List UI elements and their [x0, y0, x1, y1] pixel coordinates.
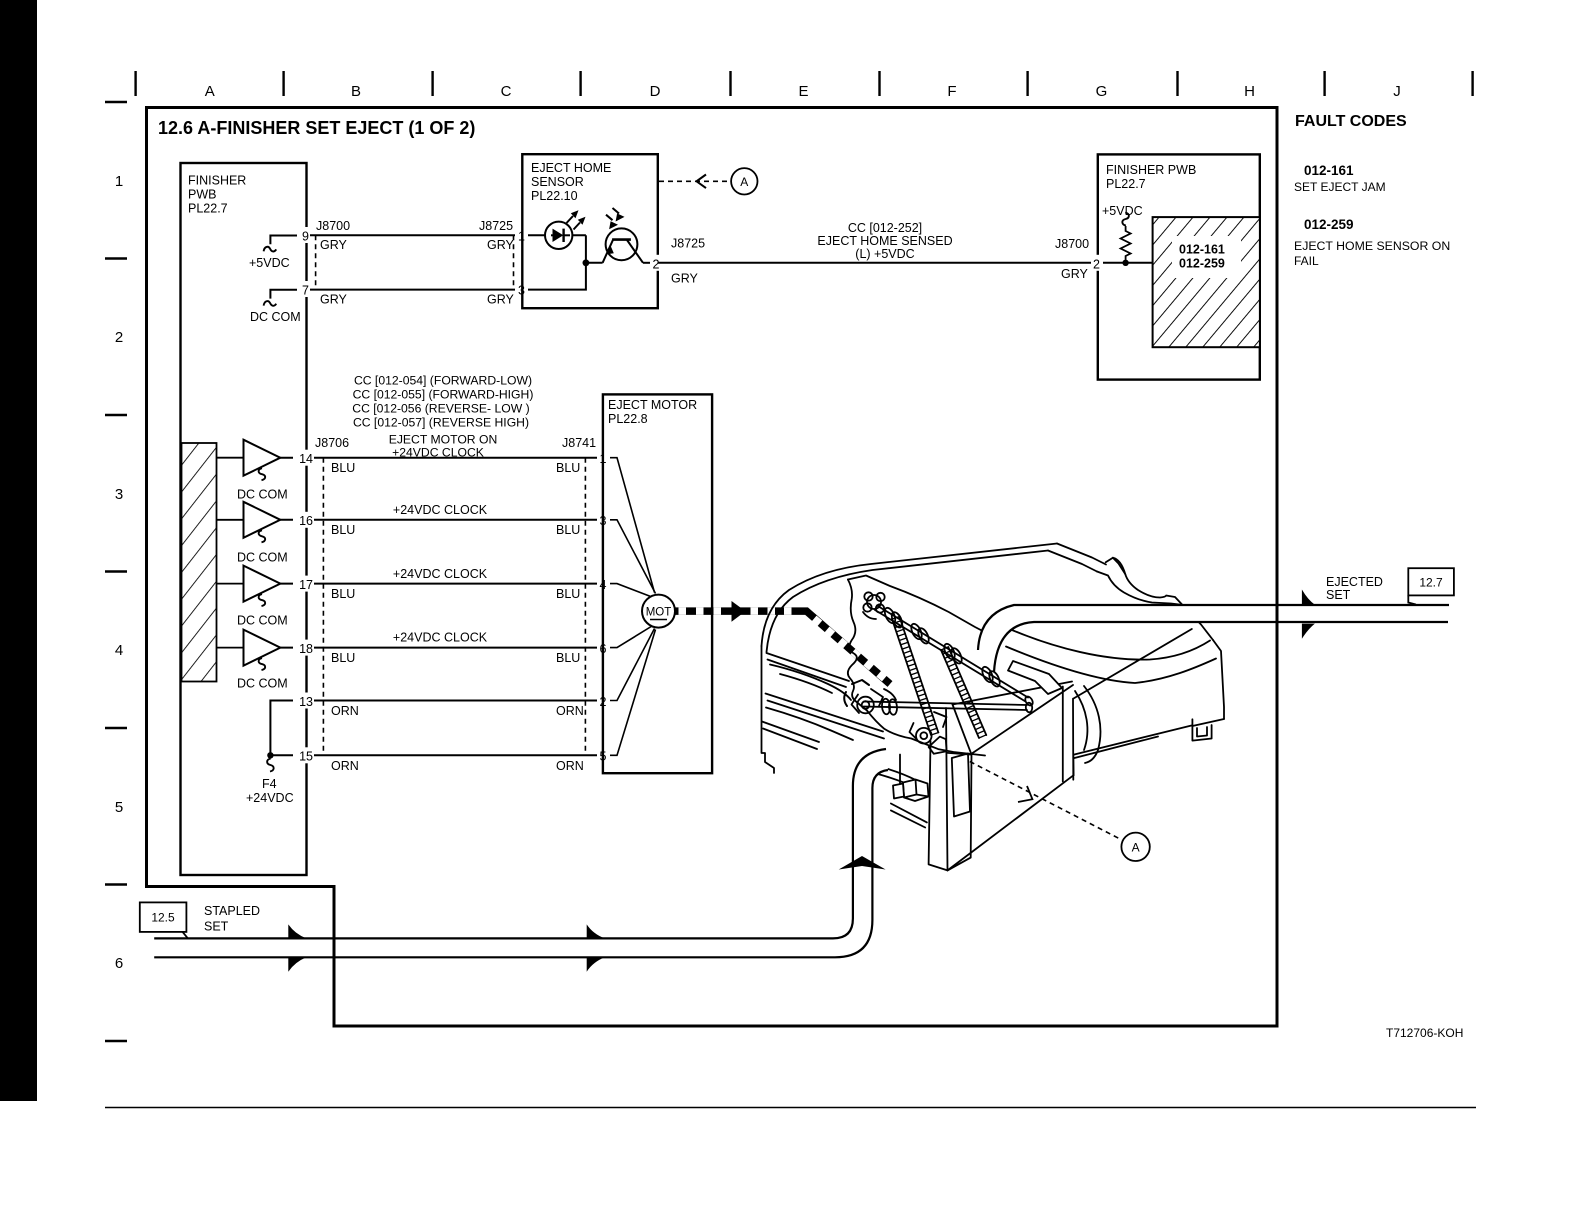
lower left yoke arms	[852, 689, 884, 713]
svg-text:J: J	[1393, 83, 1401, 100]
stapled set arrow pair 2	[587, 924, 605, 938]
svg-text:G: G	[1096, 83, 1108, 100]
svg-text:GRY: GRY	[1061, 267, 1089, 281]
LED D1	[545, 222, 572, 249]
body top-right edge	[1182, 605, 1213, 640]
ridge right of peak	[1057, 544, 1106, 565]
wire pin3 to junction	[528, 263, 586, 290]
wire BLU J8706-16 to J8741-3	[280, 519, 603, 521]
svg-text:PWB: PWB	[188, 188, 216, 202]
svg-text:DC COM: DC COM	[237, 488, 288, 502]
svg-text:DC COM: DC COM	[250, 310, 301, 324]
eject unit plate left wavy edge	[848, 580, 867, 711]
svg-text:SET: SET	[1326, 588, 1351, 602]
CC motor fault codes block	[352, 374, 533, 460]
gear rack 1 edges	[892, 616, 938, 735]
dashed leader to balloon A	[659, 180, 727, 182]
svg-text:14: 14	[299, 452, 313, 466]
pin 13	[293, 693, 314, 709]
svg-text:PL22.7: PL22.7	[188, 202, 228, 216]
svg-text:J8706: J8706	[315, 436, 349, 450]
12.7 reference tab	[1408, 568, 1454, 595]
svg-text:A: A	[205, 83, 215, 100]
svg-text:+24VDC CLOCK: +24VDC CLOCK	[393, 503, 488, 517]
svg-text:12.6 A-FINISHER SET EJECT (1 O: 12.6 A-FINISHER SET EJECT (1 OF 2)	[158, 118, 475, 138]
spool 3	[942, 642, 957, 661]
pillar side face and bottom	[948, 705, 972, 871]
ejected set path lower line	[994, 622, 1448, 672]
pin 1	[515, 227, 528, 243]
svg-text:+24VDC: +24VDC	[246, 791, 294, 805]
wire BLU J8706-18 to J8741-6	[280, 647, 603, 649]
svg-text:GRY: GRY	[487, 238, 515, 252]
rear saddle lobe outer	[1106, 558, 1183, 605]
svg-text:BLU: BLU	[331, 461, 355, 475]
fender curve upper	[1012, 630, 1210, 660]
svg-text:EJECT MOTOR: EJECT MOTOR	[608, 398, 697, 412]
drawing border frame with notch	[147, 108, 1278, 1027]
svg-text:GRY: GRY	[320, 238, 348, 252]
wire GRY J8700-7 to J8725-3	[306, 289, 522, 291]
svg-text:FAULT CODES: FAULT CODES	[1295, 113, 1407, 130]
page margin black bar	[0, 0, 37, 1101]
svg-text:CC [012-057] (REVERSE HIGH): CC [012-057] (REVERSE HIGH)	[353, 416, 529, 430]
svg-text:PL22.8: PL22.8	[608, 412, 648, 426]
ruler tick marks	[136, 71, 1473, 96]
pin 16	[293, 512, 314, 528]
svg-text:4: 4	[115, 642, 123, 659]
DC COM stub J8700-7	[270, 290, 298, 299]
chute guide curves	[873, 765, 927, 785]
eject unit plate bottom edge	[867, 711, 985, 756]
belt arrow	[732, 601, 746, 622]
balloon A	[731, 168, 757, 194]
pin 3 motor	[597, 512, 610, 528]
driver amp 2	[217, 519, 244, 521]
svg-text:PL22.7: PL22.7	[1106, 177, 1146, 191]
svg-text:EJECT MOTOR ON: EJECT MOTOR ON	[389, 433, 498, 447]
spool pair 1	[883, 606, 898, 625]
svg-text:+5VDC: +5VDC	[1102, 204, 1143, 218]
svg-text:J8741: J8741	[562, 436, 596, 450]
svg-text:EJECT HOME SENSED: EJECT HOME SENSED	[817, 234, 952, 248]
svg-text:13: 13	[299, 695, 313, 709]
wire GRY J8700-9 to J8725-1	[306, 234, 522, 236]
svg-text:BLU: BLU	[331, 651, 355, 665]
body bottom-right foot	[1192, 719, 1224, 741]
pin 3	[515, 281, 528, 297]
svg-text:17: 17	[299, 578, 313, 592]
pin 9	[297, 227, 310, 243]
svg-text:ORN: ORN	[556, 759, 584, 773]
svg-text:+5VDC: +5VDC	[249, 256, 290, 270]
svg-text:EJECT HOME: EJECT HOME	[531, 161, 611, 175]
svg-text:BLU: BLU	[331, 587, 355, 601]
svg-text:BLU: BLU	[556, 587, 580, 601]
driver amp 3	[217, 583, 244, 585]
driver amp 1	[217, 457, 244, 459]
wire into pin 2	[1092, 262, 1153, 264]
gear rack 2 teeth	[941, 647, 986, 738]
pin 1 motor	[597, 450, 610, 466]
wire BLU J8706-14 to J8741-1	[280, 457, 603, 459]
svg-text:GRY: GRY	[671, 272, 699, 286]
svg-text:16: 16	[299, 514, 313, 528]
svg-text:H: H	[1244, 83, 1255, 100]
stapled set pipe fill	[154, 749, 888, 957]
eject home sensor box	[522, 154, 658, 308]
svg-text:DC COM: DC COM	[237, 614, 288, 628]
svg-text:SET EJECT JAM: SET EJECT JAM	[1294, 180, 1386, 194]
block left face right verticals	[1063, 687, 1074, 782]
+5VDC stub J8700-9	[270, 236, 298, 245]
svg-text:+24VDC CLOCK: +24VDC CLOCK	[393, 567, 488, 581]
frame notch restored over stapled path	[333, 936, 336, 959]
sensor slot	[952, 754, 970, 817]
pull-up resistor	[1121, 226, 1131, 263]
svg-text:D: D	[650, 83, 661, 100]
svg-text:A: A	[1132, 841, 1140, 855]
svg-text:15: 15	[299, 750, 313, 764]
wedge upper diagonal	[953, 682, 1073, 705]
pin 14	[293, 450, 314, 466]
LED emission arrows	[567, 216, 581, 230]
bottom-right yoke	[910, 712, 947, 739]
tray sheet curves	[770, 665, 851, 701]
svg-text:+24VDC CLOCK: +24VDC CLOCK	[393, 631, 488, 645]
svg-text:CC [012-054] (FORWARD-LOW): CC [012-054] (FORWARD-LOW)	[354, 374, 532, 388]
connector dashed line J8725	[513, 235, 515, 289]
svg-text:T712706-KOH: T712706-KOH	[1386, 1026, 1463, 1040]
svg-text:J8700: J8700	[316, 219, 350, 233]
block left face diagonals	[948, 685, 1074, 870]
pin 7	[297, 281, 310, 297]
block left face fill	[948, 685, 1074, 870]
wire colour labels	[331, 461, 584, 773]
dashed leader to balloon A lower	[970, 762, 1122, 840]
pin 15	[293, 747, 314, 763]
svg-text:1: 1	[115, 173, 123, 190]
body bottom rim	[1073, 726, 1191, 776]
block facet diagonal	[1073, 629, 1192, 699]
svg-text:BLU: BLU	[556, 461, 580, 475]
svg-text:SENSOR: SENSOR	[531, 175, 584, 189]
extra clamp hardware	[844, 680, 869, 706]
svg-text:18: 18	[299, 642, 313, 656]
ruler column letters	[205, 83, 1401, 100]
wire ORN J8706-13 to J8741-2	[306, 700, 603, 702]
support pillar front face	[929, 708, 948, 870]
svg-text:F4: F4	[262, 777, 277, 791]
ejected set pipe fill	[978, 605, 1449, 672]
svg-text:ORN: ORN	[331, 759, 359, 773]
svg-text:A: A	[740, 175, 748, 189]
svg-text:012-161: 012-161	[1304, 163, 1354, 178]
svg-text:J8700: J8700	[1055, 237, 1089, 251]
eject unit plate top edge	[848, 576, 1000, 641]
top cover outer rim	[762, 544, 1058, 647]
wire pin1 to LED	[528, 234, 586, 236]
mid pulley pair	[881, 698, 890, 714]
row numbers	[115, 173, 123, 972]
svg-text:3: 3	[115, 486, 123, 503]
flower knob	[867, 595, 881, 609]
leader arrowhead	[1018, 786, 1032, 802]
svg-text:C: C	[501, 83, 512, 100]
svg-text:BLU: BLU	[556, 651, 580, 665]
svg-text:6: 6	[115, 955, 123, 972]
svg-text:B: B	[351, 83, 361, 100]
frame edge restored over ejected path	[1276, 603, 1279, 624]
svg-text:012-259: 012-259	[1179, 257, 1225, 271]
shaft end cap	[1024, 695, 1035, 707]
12.5 reference tab	[140, 902, 187, 932]
ground plane hatched bar	[182, 443, 217, 682]
ejected set arrow upper	[1302, 590, 1315, 605]
svg-text:9: 9	[302, 230, 309, 244]
stapled set path lower line	[154, 770, 888, 957]
wire ORN J8706-15 to J8741-5	[306, 754, 603, 756]
fault hatched region	[1153, 217, 1260, 347]
svg-text:CC [012-252]: CC [012-252]	[848, 221, 922, 235]
svg-text:STAPLED: STAPLED	[204, 904, 260, 918]
svg-text:2: 2	[653, 257, 660, 271]
svg-text:CC [012-055] (FORWARD-HIGH): CC [012-055] (FORWARD-HIGH)	[353, 388, 534, 402]
wire LED to junction	[585, 235, 587, 262]
svg-text:DC COM: DC COM	[237, 551, 288, 565]
pin 18	[293, 640, 314, 656]
lower shaft	[864, 702, 1028, 711]
svg-text:FAIL: FAIL	[1294, 254, 1319, 268]
rear saddle lobe inner	[1097, 558, 1182, 605]
upper shaft	[875, 606, 1028, 702]
lower shaft left bearing	[857, 697, 874, 714]
tray lines left face	[767, 653, 850, 681]
svg-text:2: 2	[1093, 257, 1100, 271]
connector dashed line J8700	[315, 235, 317, 289]
wire BLU J8706-17 to J8741-4	[280, 583, 603, 585]
stapled set path upper line	[154, 749, 886, 938]
stapled set arrow pair 1	[288, 924, 306, 938]
svg-text:BLU: BLU	[331, 523, 355, 537]
finisher PWB (left) box	[181, 163, 307, 875]
svg-text:EJECTED: EJECTED	[1326, 575, 1383, 589]
finisher PWB (right) box	[1098, 154, 1260, 379]
top cover inner rim	[767, 551, 1049, 653]
phototransistor Q1	[586, 262, 603, 264]
pin 2 sensor	[650, 255, 662, 271]
svg-text:012-161: 012-161	[1179, 243, 1225, 257]
pin 6 motor	[597, 640, 610, 656]
svg-text:BLU: BLU	[556, 523, 580, 537]
pin 2 right pwb	[1091, 255, 1103, 271]
+24VDC CLOCK wire labels	[393, 503, 488, 645]
wire GRY J8725-2 to J8700-2	[658, 262, 1092, 264]
stapled set up arrow	[839, 856, 886, 870]
svg-text:FINISHER: FINISHER	[188, 174, 246, 188]
connector dashed line J8706	[322, 458, 324, 756]
received light arrows	[606, 208, 619, 220]
svg-text:7: 7	[302, 284, 309, 298]
finisher left face vertical edge	[762, 646, 775, 773]
svg-text:12.7: 12.7	[1419, 576, 1443, 590]
spool 4	[980, 665, 995, 684]
svg-text:MOT: MOT	[646, 607, 672, 619]
pin 4 motor	[597, 576, 610, 592]
svg-text:SET: SET	[204, 920, 229, 934]
spool 2	[909, 622, 924, 641]
body right face edge	[1213, 640, 1224, 719]
ejected set arrow lower	[1302, 624, 1315, 639]
left margin dashes	[105, 102, 127, 1041]
svg-text:J8725: J8725	[479, 219, 513, 233]
CC [012-252] signal label	[817, 221, 952, 261]
svg-text:2: 2	[115, 329, 123, 346]
svg-text:PL22.10: PL22.10	[531, 189, 578, 203]
svg-text:ORN: ORN	[331, 704, 359, 718]
svg-text:5: 5	[115, 799, 123, 816]
svg-text:CC [012-056 (REVERSE- LOW ): CC [012-056 (REVERSE- LOW )	[352, 402, 529, 416]
pin 5 motor	[597, 747, 610, 763]
svg-text:12.5: 12.5	[151, 911, 175, 925]
svg-text:DC COM: DC COM	[237, 677, 288, 691]
svg-text:E: E	[798, 83, 808, 100]
drive belt	[675, 611, 890, 684]
balloon A lower	[1121, 833, 1149, 861]
shaft support arm	[1008, 661, 1062, 694]
svg-text:F: F	[947, 83, 956, 100]
driver amp 4	[217, 647, 244, 649]
svg-text:J8725: J8725	[671, 237, 705, 251]
svg-text:GRY: GRY	[320, 293, 348, 307]
svg-text:(L) +5VDC: (L) +5VDC	[855, 247, 914, 261]
svg-text:FINISHER PWB: FINISHER PWB	[1106, 163, 1196, 177]
pin 17	[293, 576, 314, 592]
valley curves	[1075, 691, 1087, 750]
bottom bearing	[916, 728, 932, 744]
svg-text:ORN: ORN	[556, 704, 584, 718]
gear rack 2 edges	[941, 647, 986, 738]
svg-text:EJECT HOME SENSOR ON: EJECT HOME SENSOR ON	[1294, 239, 1450, 253]
svg-text:012-259: 012-259	[1304, 217, 1354, 232]
pin 2 motor	[597, 693, 610, 709]
ejected set path upper line	[978, 605, 1449, 650]
eject motor box	[603, 394, 712, 773]
svg-text:GRY: GRY	[487, 293, 515, 307]
motor winding leads	[610, 458, 656, 756]
junction node	[583, 259, 590, 266]
gear rack 1 teeth	[892, 617, 939, 736]
motor MOT symbol	[642, 595, 675, 628]
bottom rule	[105, 1107, 1476, 1109]
junction node	[1122, 260, 1128, 266]
fender curve lower	[1006, 647, 1216, 684]
F4 +24VDC branch	[270, 701, 306, 756]
latch part	[903, 780, 929, 802]
connector dashed line J8741	[584, 458, 586, 756]
